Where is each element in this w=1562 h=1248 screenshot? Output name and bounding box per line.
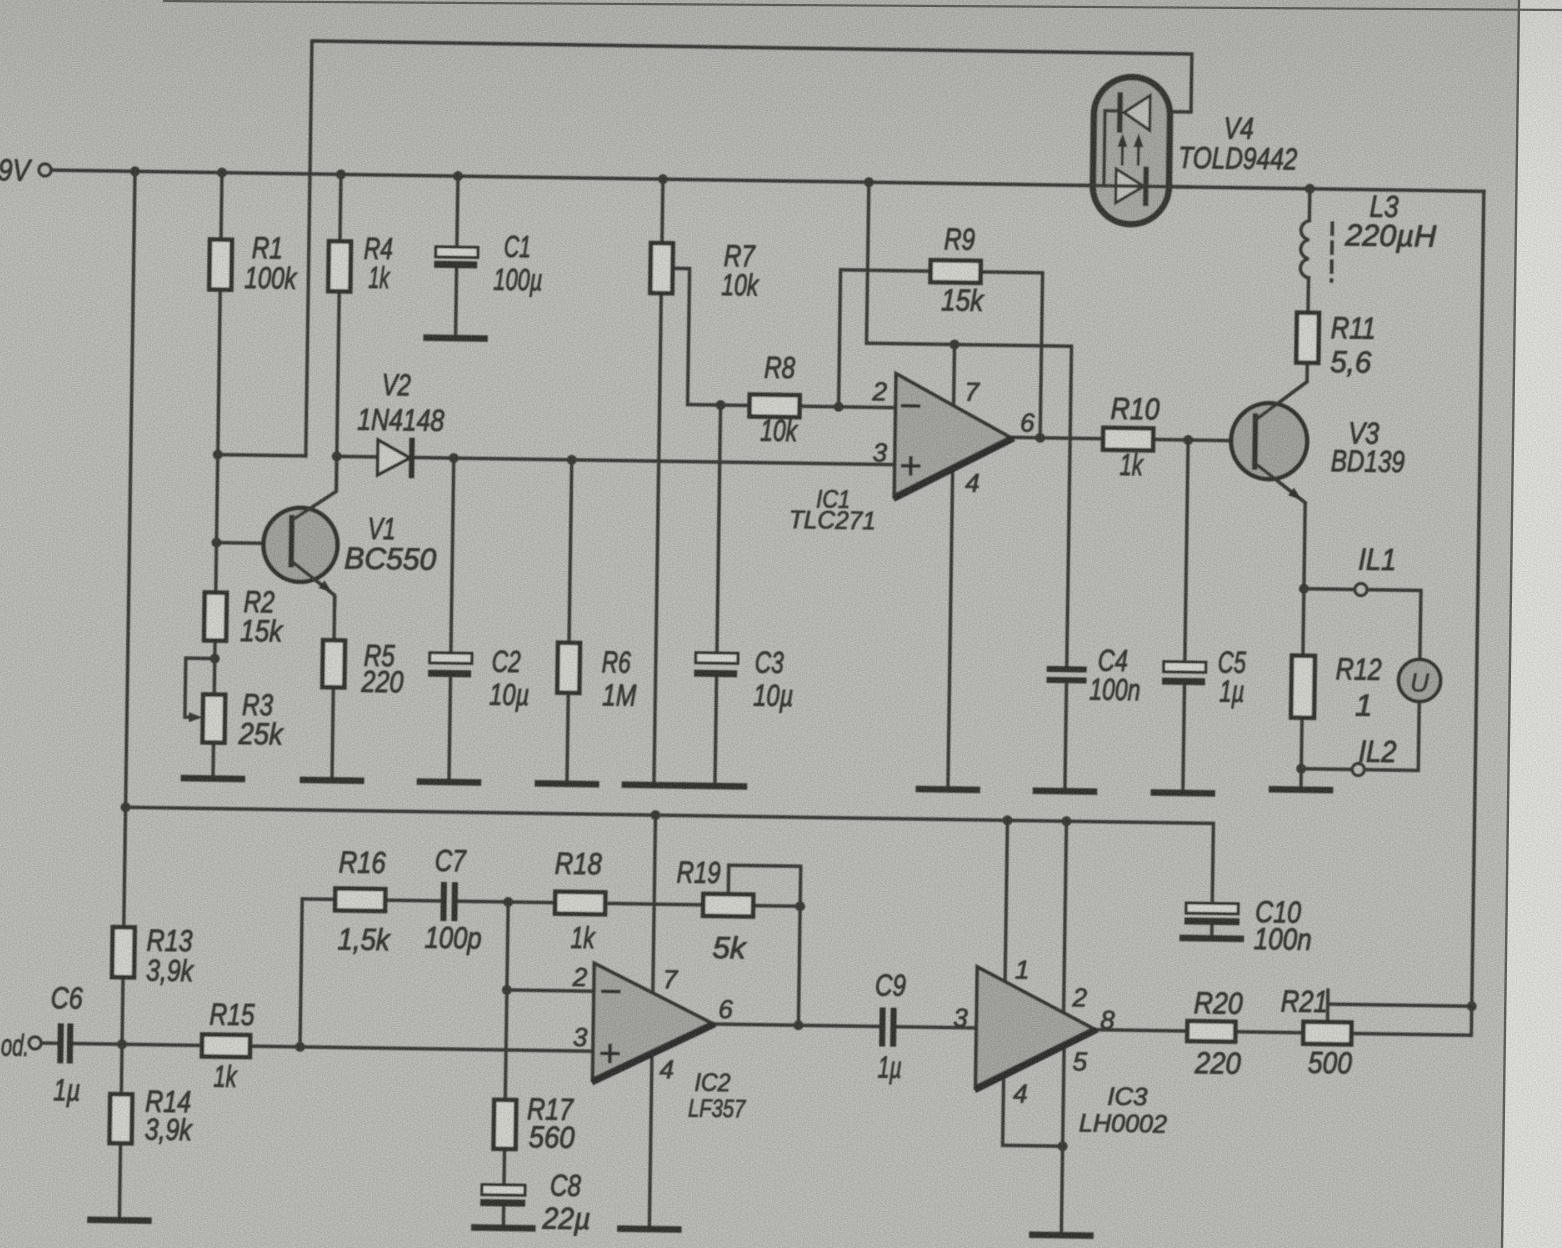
wire IC3 pin1: [1005, 820, 1007, 981]
terminal IL1: [1355, 583, 1367, 595]
wire IC2 output to C9 to IC3: [711, 1024, 976, 1028]
resistor R6: [557, 643, 580, 693]
ground C2: [420, 778, 478, 785]
capacitor C7: [443, 885, 454, 918]
node R1-R2: [213, 450, 223, 460]
ground C5: [1154, 789, 1212, 796]
node R21 tap: [1467, 1001, 1477, 1011]
wire IC2 pin7: [653, 815, 656, 993]
light arrows inside V4: [1121, 141, 1124, 164]
node V1 collector: [332, 451, 342, 461]
wire IC1 pin7 supply and C4 branch: [860, 182, 1074, 791]
node rail-R4: [336, 169, 346, 179]
node R2-R3 wiper: [210, 653, 220, 663]
wire R2-R3 wiper: [185, 658, 215, 717]
terminal mod input: [29, 1037, 41, 1049]
ground IC1 pin4: [919, 786, 977, 793]
node rail-left: [130, 166, 140, 176]
wire R7 column: [654, 179, 663, 785]
L3 core dashed: [1330, 223, 1334, 281]
node rail-IC1supply: [864, 177, 874, 187]
resistor R2: [204, 592, 227, 640]
ground R5: [303, 777, 361, 784]
node C3 top: [716, 400, 726, 410]
wire R19 tap and drop to output: [726, 865, 800, 1025]
wire C2 column: [449, 458, 454, 782]
transistor V3: [1231, 403, 1308, 480]
capacitor C4: [1050, 669, 1084, 681]
resistor R4: [328, 241, 351, 291]
wire IC2 pin4 to ground: [649, 1051, 652, 1229]
inductor L3: [1300, 189, 1310, 278]
wire R9 feedback loop: [838, 270, 1042, 438]
node C2 top: [449, 453, 459, 463]
node IC2 output: [793, 1020, 803, 1030]
ground IC3: [1032, 1232, 1090, 1239]
node rail2-IC2pin7: [650, 810, 660, 820]
ground R12: [1272, 786, 1330, 793]
resistor R16: [335, 888, 385, 911]
op-amp IC2: [593, 963, 713, 1081]
wire R6 column: [567, 460, 572, 784]
ground R14: [90, 1217, 148, 1224]
node C5 top: [1183, 435, 1193, 445]
resistor R1: [209, 239, 232, 289]
resistor R20: [1187, 1021, 1235, 1042]
ground IC2 pin4: [620, 1225, 678, 1232]
wire R13 column: [122, 807, 126, 1044]
capacitor C10: [1186, 903, 1238, 914]
ground R7: [625, 781, 683, 788]
node R19 right: [795, 901, 805, 911]
wire lower supply rail to C10: [124, 807, 1214, 938]
node IL2: [1296, 764, 1306, 774]
wire V3 collector to R11: [1255, 277, 1308, 421]
resistor R7: [650, 243, 673, 293]
wire C3 column: [715, 405, 721, 786]
ground C8: [474, 1224, 532, 1231]
laser package V4: [1092, 77, 1170, 225]
wire feedback vertical to R16: [300, 899, 335, 1047]
node R8-R9: [834, 402, 844, 412]
resistor R12: [1291, 656, 1315, 718]
photodiode inside V4: [1116, 169, 1145, 203]
wire R16-C7-R18-R19 row: [385, 900, 703, 905]
wire IL1 row and voltmeter branch: [1301, 589, 1421, 771]
resistor R11: [1296, 313, 1319, 363]
ground R2/R3: [184, 775, 242, 782]
wire C1 column: [456, 176, 458, 338]
capacitor C8: [482, 1185, 525, 1196]
laser diode inside V4: [1124, 95, 1151, 130]
voltmeter U: [1398, 659, 1441, 702]
wire C5 column: [1183, 440, 1188, 793]
op-amp IC1: [894, 374, 1011, 498]
wire V2 diode row: [337, 456, 895, 464]
resistor R8: [749, 394, 799, 417]
ground R6: [538, 780, 596, 787]
diode V2: [378, 440, 411, 475]
capacitor C9: [882, 1011, 893, 1044]
wire right edge from rail to R21 output: [1351, 190, 1484, 1036]
transistor V1: [263, 507, 338, 582]
capacitor C6: [60, 1026, 70, 1060]
wire laser cathode to common pin: [1104, 111, 1120, 186]
wire R14 column: [119, 1044, 122, 1220]
wire IC1 output row to V3 base: [1010, 437, 1253, 441]
node C6-R13-R14: [117, 1039, 127, 1049]
node V1 base: [211, 538, 221, 548]
resistor R18: [555, 892, 605, 915]
node IC2 pin2: [502, 985, 512, 995]
wire V2 row left (R1 column to corner): [218, 455, 306, 456]
node rail-C1: [453, 171, 463, 181]
node rail2-IC3pin1: [1002, 815, 1012, 825]
node rail2-IC3pin2: [1061, 816, 1071, 826]
wire 9V rail through V4 redrawn: [1080, 185, 1190, 187]
resistor R9: [930, 260, 980, 283]
ground C10: [1183, 935, 1241, 942]
wire R1/R2/R3 column: [213, 173, 222, 779]
node rail-R1: [217, 168, 227, 178]
node IL1: [1299, 584, 1309, 594]
resistor R14: [110, 1094, 133, 1143]
node R6 top: [567, 455, 577, 465]
resistor R5: [322, 640, 345, 687]
wire IC3 pin2: [1064, 821, 1067, 1013]
top page edge line: [163, 1, 1562, 10]
ground C1: [427, 334, 485, 341]
wire left vertical from 9V rail down to lower rail: [126, 171, 135, 807]
wire R8 to IC1 pin2: [800, 406, 896, 407]
wire V3 emitter down through R12 to ground: [1250, 463, 1306, 790]
capacitor C5: [1164, 662, 1206, 673]
node IC1 pin7: [949, 339, 959, 349]
wire IC3 pin4/pin5 to ground: [1001, 1042, 1064, 1235]
node R15-R16: [295, 1042, 305, 1052]
resistor R13: [112, 927, 135, 977]
node IC3 pin4-5: [1058, 1141, 1068, 1151]
wire IC1 pin4 to ground: [948, 466, 953, 789]
resistor R19: [703, 894, 753, 917]
capacitor C1: [436, 247, 478, 258]
wire top feedback rail: [306, 41, 1192, 469]
terminal 9V: [39, 164, 51, 176]
node rail2-left: [120, 802, 130, 812]
node rail-L3: [1305, 184, 1315, 194]
wire 9V rail: [51, 170, 1484, 191]
wire V1 emitter / R5 column: [289, 562, 335, 781]
node C7-R18: [503, 897, 513, 907]
wire R7 tap to R8 row: [671, 268, 752, 405]
node rail-R7: [658, 174, 668, 184]
ground C4: [1036, 788, 1094, 795]
wire IC2 pin2 node / R17 column: [503, 902, 595, 1229]
node IC1 output: [1035, 433, 1045, 443]
resistor R15: [202, 1034, 250, 1057]
buffer IC3: [976, 967, 1095, 1089]
resistor R3: [203, 694, 226, 742]
wire IC3 output row: [1093, 1030, 1351, 1034]
resistor R17: [494, 1100, 517, 1149]
capacitor C3: [696, 653, 738, 664]
terminal IL2: [1352, 763, 1364, 775]
ground C3: [686, 782, 744, 789]
wire mod input row: [41, 1043, 593, 1051]
right page margin (lighter strip): [1502, 0, 1562, 1248]
wire R4 / V1 collector column: [293, 174, 341, 521]
resistor R10: [1103, 428, 1153, 451]
capacitor C2: [430, 653, 472, 664]
resistor R21: [1303, 1022, 1351, 1045]
wire R21 wiper tap: [1328, 990, 1472, 1024]
wire V1 base: [216, 543, 288, 544]
